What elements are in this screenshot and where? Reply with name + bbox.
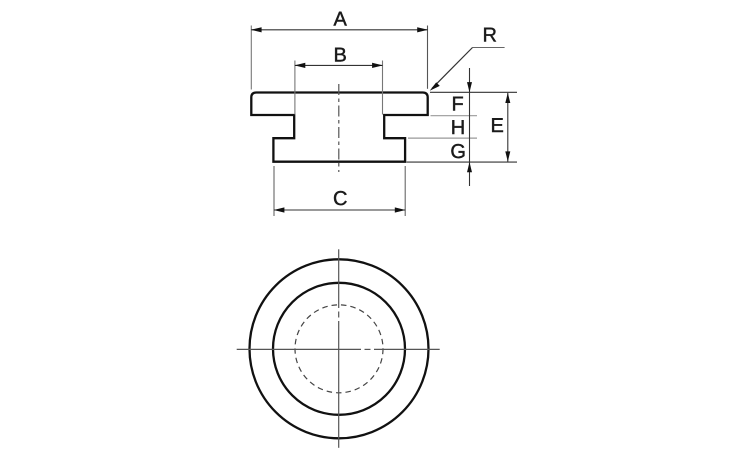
- svg-text:F: F: [452, 94, 464, 116]
- svg-text:G: G: [450, 141, 466, 163]
- svg-text:A: A: [334, 9, 348, 31]
- svg-text:C: C: [333, 188, 347, 210]
- svg-text:B: B: [334, 45, 347, 67]
- svg-text:H: H: [451, 117, 465, 139]
- svg-text:R: R: [483, 25, 497, 47]
- svg-text:E: E: [491, 115, 504, 137]
